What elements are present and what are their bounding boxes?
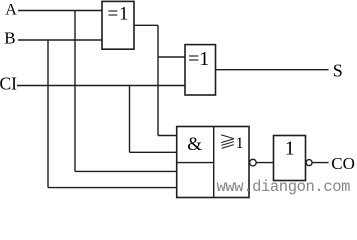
svg-text:CO: CO — [331, 154, 355, 173]
svg-text:CI: CI — [0, 73, 17, 93]
svg-text:=1: =1 — [108, 3, 130, 24]
svg-text:www.diangon.com: www.diangon.com — [217, 178, 351, 196]
and-or gate U3 outer body — [177, 127, 249, 198]
wire input B horizontal — [18, 39, 103, 41]
wire inverter U4 bubble to CO — [312, 162, 328, 164]
wire OR bubble to inverter U4 input — [256, 162, 273, 164]
wire B to lower AND gate input — [48, 187, 177, 189]
wire CI vertical drop at x=129.5 — [129, 86, 131, 153]
wire B vertical drop at x=48 to AND input — [47, 40, 49, 188]
wire XOR U1 output horizontal — [134, 24, 158, 26]
wire CI to upper AND gate input — [130, 151, 178, 153]
and-or gate U3 AND cell divider — [177, 162, 214, 164]
inverter U4 body — [274, 136, 306, 181]
wire node A-xor-B to upper AND gate input — [158, 135, 177, 137]
wire input A horizontal — [18, 10, 103, 12]
svg-text:A: A — [5, 2, 17, 19]
and-or gate U3 column divider — [213, 127, 215, 198]
wire node A-xor-B to XOR U2 input — [158, 56, 185, 58]
svg-text:B: B — [4, 29, 15, 48]
xor gate U2 body — [185, 45, 216, 95]
svg-text:&: & — [187, 134, 202, 155]
svg-text:1: 1 — [236, 135, 244, 152]
or gate output inversion bubble — [250, 159, 257, 166]
svg-text:S: S — [333, 60, 343, 80]
inverter U4 output bubble — [306, 160, 312, 166]
svg-text:=1: =1 — [188, 48, 209, 70]
wire XOR U2 output to S — [216, 69, 329, 71]
wire A vertical drop at x=75 to AND input — [74, 11, 76, 172]
wire input CI horizontal to XOR U2 pin — [17, 85, 185, 87]
svg-text:1: 1 — [285, 137, 295, 159]
wire A to lower AND gate input — [75, 170, 177, 172]
wire XOR U1 output vertical drop at x=158 — [157, 25, 159, 135]
or gate label >=1 glyph strokes — [221, 135, 234, 149]
xor gate U1 body — [102, 1, 134, 49]
